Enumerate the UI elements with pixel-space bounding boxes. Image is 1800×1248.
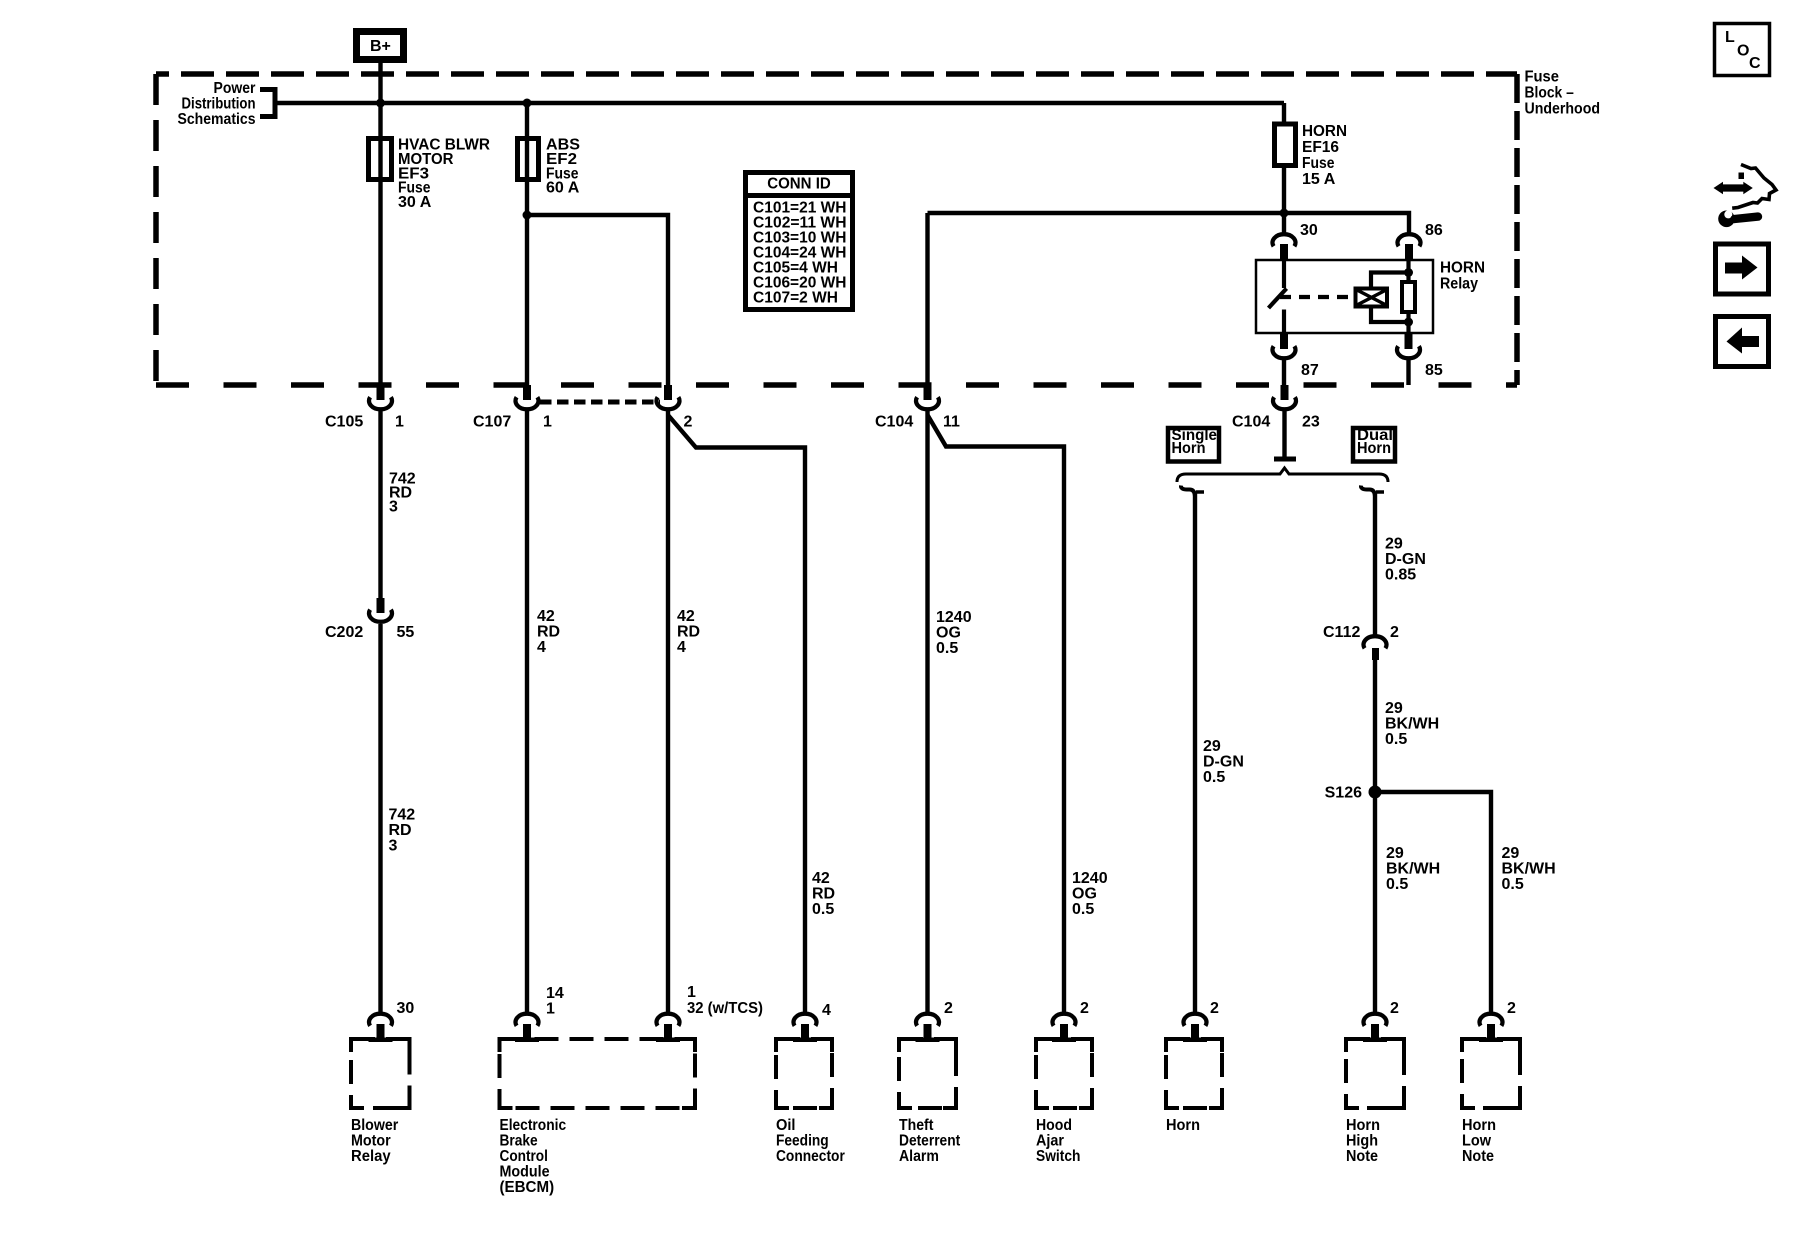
HORN relay box (1256, 260, 1433, 333)
svg-text:2: 2 (1390, 624, 1399, 641)
wire C202 below to blower (378, 624, 382, 1013)
svg-text:30: 30 (1300, 222, 1318, 239)
svg-text:Power: Power (214, 80, 256, 97)
svg-text:29D-GN0.85: 29D-GN0.85 (1385, 536, 1426, 584)
svg-text:HVAC BLWRMOTOREF3Fuse30 A: HVAC BLWRMOTOREF3Fuse30 A (398, 137, 490, 212)
svg-text:85: 85 (1425, 362, 1443, 379)
connector horn pin 2 (1183, 1014, 1207, 1042)
box horn (1166, 1039, 1222, 1108)
dashed box corners (351, 1039, 410, 1108)
connector EBCM pin 1/32 (656, 1014, 680, 1042)
connector C104-23 (1273, 385, 1296, 409)
wire C112 to S126 to high note (1373, 660, 1377, 1013)
svg-text:L: L (1725, 29, 1735, 46)
wire theft vertical (925, 213, 929, 385)
connector C112-2 (1364, 636, 1387, 660)
svg-text:11: 11 (943, 414, 960, 431)
connector C202-55 (369, 598, 392, 622)
connector oil pin 4 (793, 1014, 817, 1042)
relay resistor (1402, 282, 1415, 312)
vehicle service icon (1714, 165, 1777, 228)
svg-text:29BK/WH0.5: 29BK/WH0.5 (1502, 845, 1556, 893)
svg-text:23: 23 (1302, 414, 1320, 431)
svg-text:4: 4 (822, 1002, 831, 1019)
svg-text:1240OG0.5: 1240OG0.5 (936, 609, 972, 657)
fuse HORN EF16 (1275, 124, 1296, 166)
svg-text:42RD4: 42RD4 (537, 608, 560, 656)
wire C105 below (378, 410, 382, 598)
svg-text:C112: C112 (1323, 624, 1360, 641)
left branch hook (1181, 486, 1195, 497)
connector C104-11 (916, 385, 939, 409)
box EBCM (500, 1039, 696, 1108)
dual horn option box (1353, 428, 1395, 462)
svg-text:HornHighNote: HornHighNote (1346, 1117, 1380, 1165)
relay switch (1269, 260, 1356, 333)
svg-text:2: 2 (1390, 1000, 1399, 1017)
svg-text:1240OG0.5: 1240OG0.5 (1072, 870, 1108, 918)
splice S126 (1369, 786, 1382, 799)
connector C107-2 (657, 385, 680, 409)
wire C104-23 below (1282, 410, 1286, 457)
wire ABS down (525, 103, 529, 385)
svg-text:42RD0.5: 42RD0.5 (812, 870, 835, 918)
svg-text:86: 86 (1425, 222, 1443, 239)
svg-text:C104: C104 (875, 414, 913, 431)
svg-text:132 (w/TCS): 132 (w/TCS) (687, 984, 763, 1017)
svg-text:HornLowNote: HornLowNote (1462, 1117, 1496, 1165)
junction horn feed (1280, 209, 1289, 218)
box oil feeding connector (776, 1039, 832, 1108)
wire single horn branch (1193, 493, 1197, 1013)
svg-text:ABSEF2Fuse60 A: ABSEF2Fuse60 A (546, 137, 580, 197)
fuse block dashed box (156, 74, 1517, 385)
connector high note pin 2 (1363, 1014, 1387, 1042)
svg-text:2: 2 (1507, 1000, 1516, 1017)
svg-text:HORNRelay: HORNRelay (1440, 260, 1485, 293)
connector low note pin 2 (1479, 1014, 1503, 1042)
svg-text:Distribution: Distribution (182, 96, 256, 113)
svg-text:SingleHorn: SingleHorn (1172, 427, 1218, 457)
connector hood pin 2 (1052, 1014, 1076, 1042)
CONN ID table (746, 173, 853, 310)
svg-text:O: O (1737, 43, 1749, 60)
wire horn fuse down (1282, 103, 1286, 124)
wire B+ down to fuse block bottom (378, 63, 382, 385)
svg-text:87: 87 (1301, 362, 1319, 379)
single horn option box (1168, 428, 1219, 462)
svg-text:2: 2 (684, 414, 693, 431)
svg-text:C107: C107 (473, 414, 511, 431)
svg-text:TheftDeterrentAlarm: TheftDeterrentAlarm (899, 1117, 961, 1165)
relay pin 85 connector (1397, 333, 1420, 358)
svg-text:ElectronicBrakeControlModule(E: ElectronicBrakeControlModule(EBCM) (500, 1117, 567, 1196)
svg-text:HORNEF16Fuse15 A: HORNEF16Fuse15 A (1302, 123, 1347, 188)
svg-text:29BK/WH0.5: 29BK/WH0.5 (1386, 845, 1440, 893)
svg-text:C202: C202 (325, 624, 363, 641)
nav arrow right box (1716, 244, 1769, 294)
svg-text:S126: S126 (1325, 785, 1362, 802)
svg-text:30: 30 (397, 1000, 415, 1017)
svg-text:2: 2 (944, 1000, 953, 1017)
svg-text:1: 1 (395, 414, 404, 431)
wire C107-1 to EBCM14 (525, 410, 529, 1013)
svg-text:BlowerMotorRelay: BlowerMotorRelay (351, 1117, 398, 1165)
dotted line C107 pins (540, 400, 660, 405)
box theft deterrent alarm (899, 1039, 956, 1108)
fuse ABS EF2 (518, 139, 539, 180)
wire 87 below relay (1282, 360, 1286, 385)
B+ terminal box (357, 32, 404, 60)
svg-text:C105: C105 (325, 414, 363, 431)
bottom dashed boxes (351, 1039, 1520, 1108)
svg-text:742RD3: 742RD3 (389, 807, 416, 855)
wire bus horizontal (275, 101, 1284, 105)
connector EBCM pin 14/1 (515, 1014, 539, 1042)
svg-text:55: 55 (397, 624, 415, 641)
connector C105-1 (369, 385, 392, 409)
relay coil loop (1371, 260, 1409, 333)
svg-text:C104: C104 (1232, 414, 1270, 431)
svg-text:1: 1 (543, 414, 552, 431)
connector C107-1 (516, 385, 539, 409)
fuse HVAC EF3 (369, 139, 392, 180)
right branch hook (1361, 486, 1375, 497)
svg-text:2: 2 (1080, 1000, 1089, 1017)
svg-text:141: 141 (546, 985, 564, 1018)
svg-text:HoodAjarSwitch: HoodAjarSwitch (1036, 1117, 1080, 1165)
box horn low note (1462, 1039, 1520, 1108)
wire S126 branch to low note (1375, 792, 1491, 1013)
box blower motor relay (351, 1039, 410, 1108)
wire horn fuse to pin30 (1282, 166, 1286, 234)
svg-text:B+: B+ (370, 38, 391, 55)
wire theft diagonal to hood (928, 415, 1065, 1013)
connector blower pin 30 (369, 1014, 393, 1042)
svg-text:CONN ID: CONN ID (767, 176, 831, 193)
wire dual horn branch to C112 (1373, 492, 1377, 636)
svg-text:FuseBlock –Underhood: FuseBlock –Underhood (1525, 69, 1601, 118)
junction ABS branch (523, 211, 532, 220)
svg-text:C: C (1749, 55, 1761, 72)
svg-text:29BK/WH0.5: 29BK/WH0.5 (1385, 700, 1439, 748)
svg-text:DualHorn: DualHorn (1357, 427, 1393, 457)
relay pin 87 connector (1273, 333, 1296, 358)
LOC nav box (1715, 24, 1770, 76)
junction ABS bus (523, 99, 532, 108)
svg-text:42RD4: 42RD4 (677, 608, 700, 656)
wire pin2 down to EBCM32 (666, 410, 670, 1013)
box hood ajar switch (1036, 1039, 1092, 1108)
svg-text:Horn: Horn (1166, 1117, 1200, 1134)
wire 85 below relay (1406, 360, 1410, 385)
box horn high note (1346, 1039, 1404, 1108)
wire ABS branch right (527, 215, 668, 385)
svg-text:2: 2 (1210, 1000, 1219, 1017)
options brace (1177, 468, 1388, 482)
nav arrow left box (1716, 317, 1769, 367)
junction B+ bus (376, 99, 385, 108)
svg-text:C101=21 WHC102=11 WHC103=10 WH: C101=21 WHC102=11 WHC103=10 WHC104=24 WH… (753, 200, 847, 307)
svg-text:742RD3: 742RD3 (389, 471, 416, 516)
wire theft horizontal (928, 213, 1410, 233)
svg-text:Schematics: Schematics (178, 111, 256, 128)
connector theft pin 2 (916, 1014, 940, 1042)
wire C104-11 below (925, 410, 929, 1013)
relay coil symbol (1356, 289, 1388, 307)
svg-text:29D-GN0.5: 29D-GN0.5 (1203, 738, 1244, 786)
power distribution bracket (260, 90, 275, 117)
wire end T-bar (1274, 457, 1296, 462)
wire pin2 diagonal to oil (668, 415, 805, 1013)
svg-text:OilFeedingConnector: OilFeedingConnector (776, 1117, 845, 1165)
relay pin 30 connector (1273, 234, 1296, 260)
relay pin 86 connector (1398, 234, 1421, 260)
